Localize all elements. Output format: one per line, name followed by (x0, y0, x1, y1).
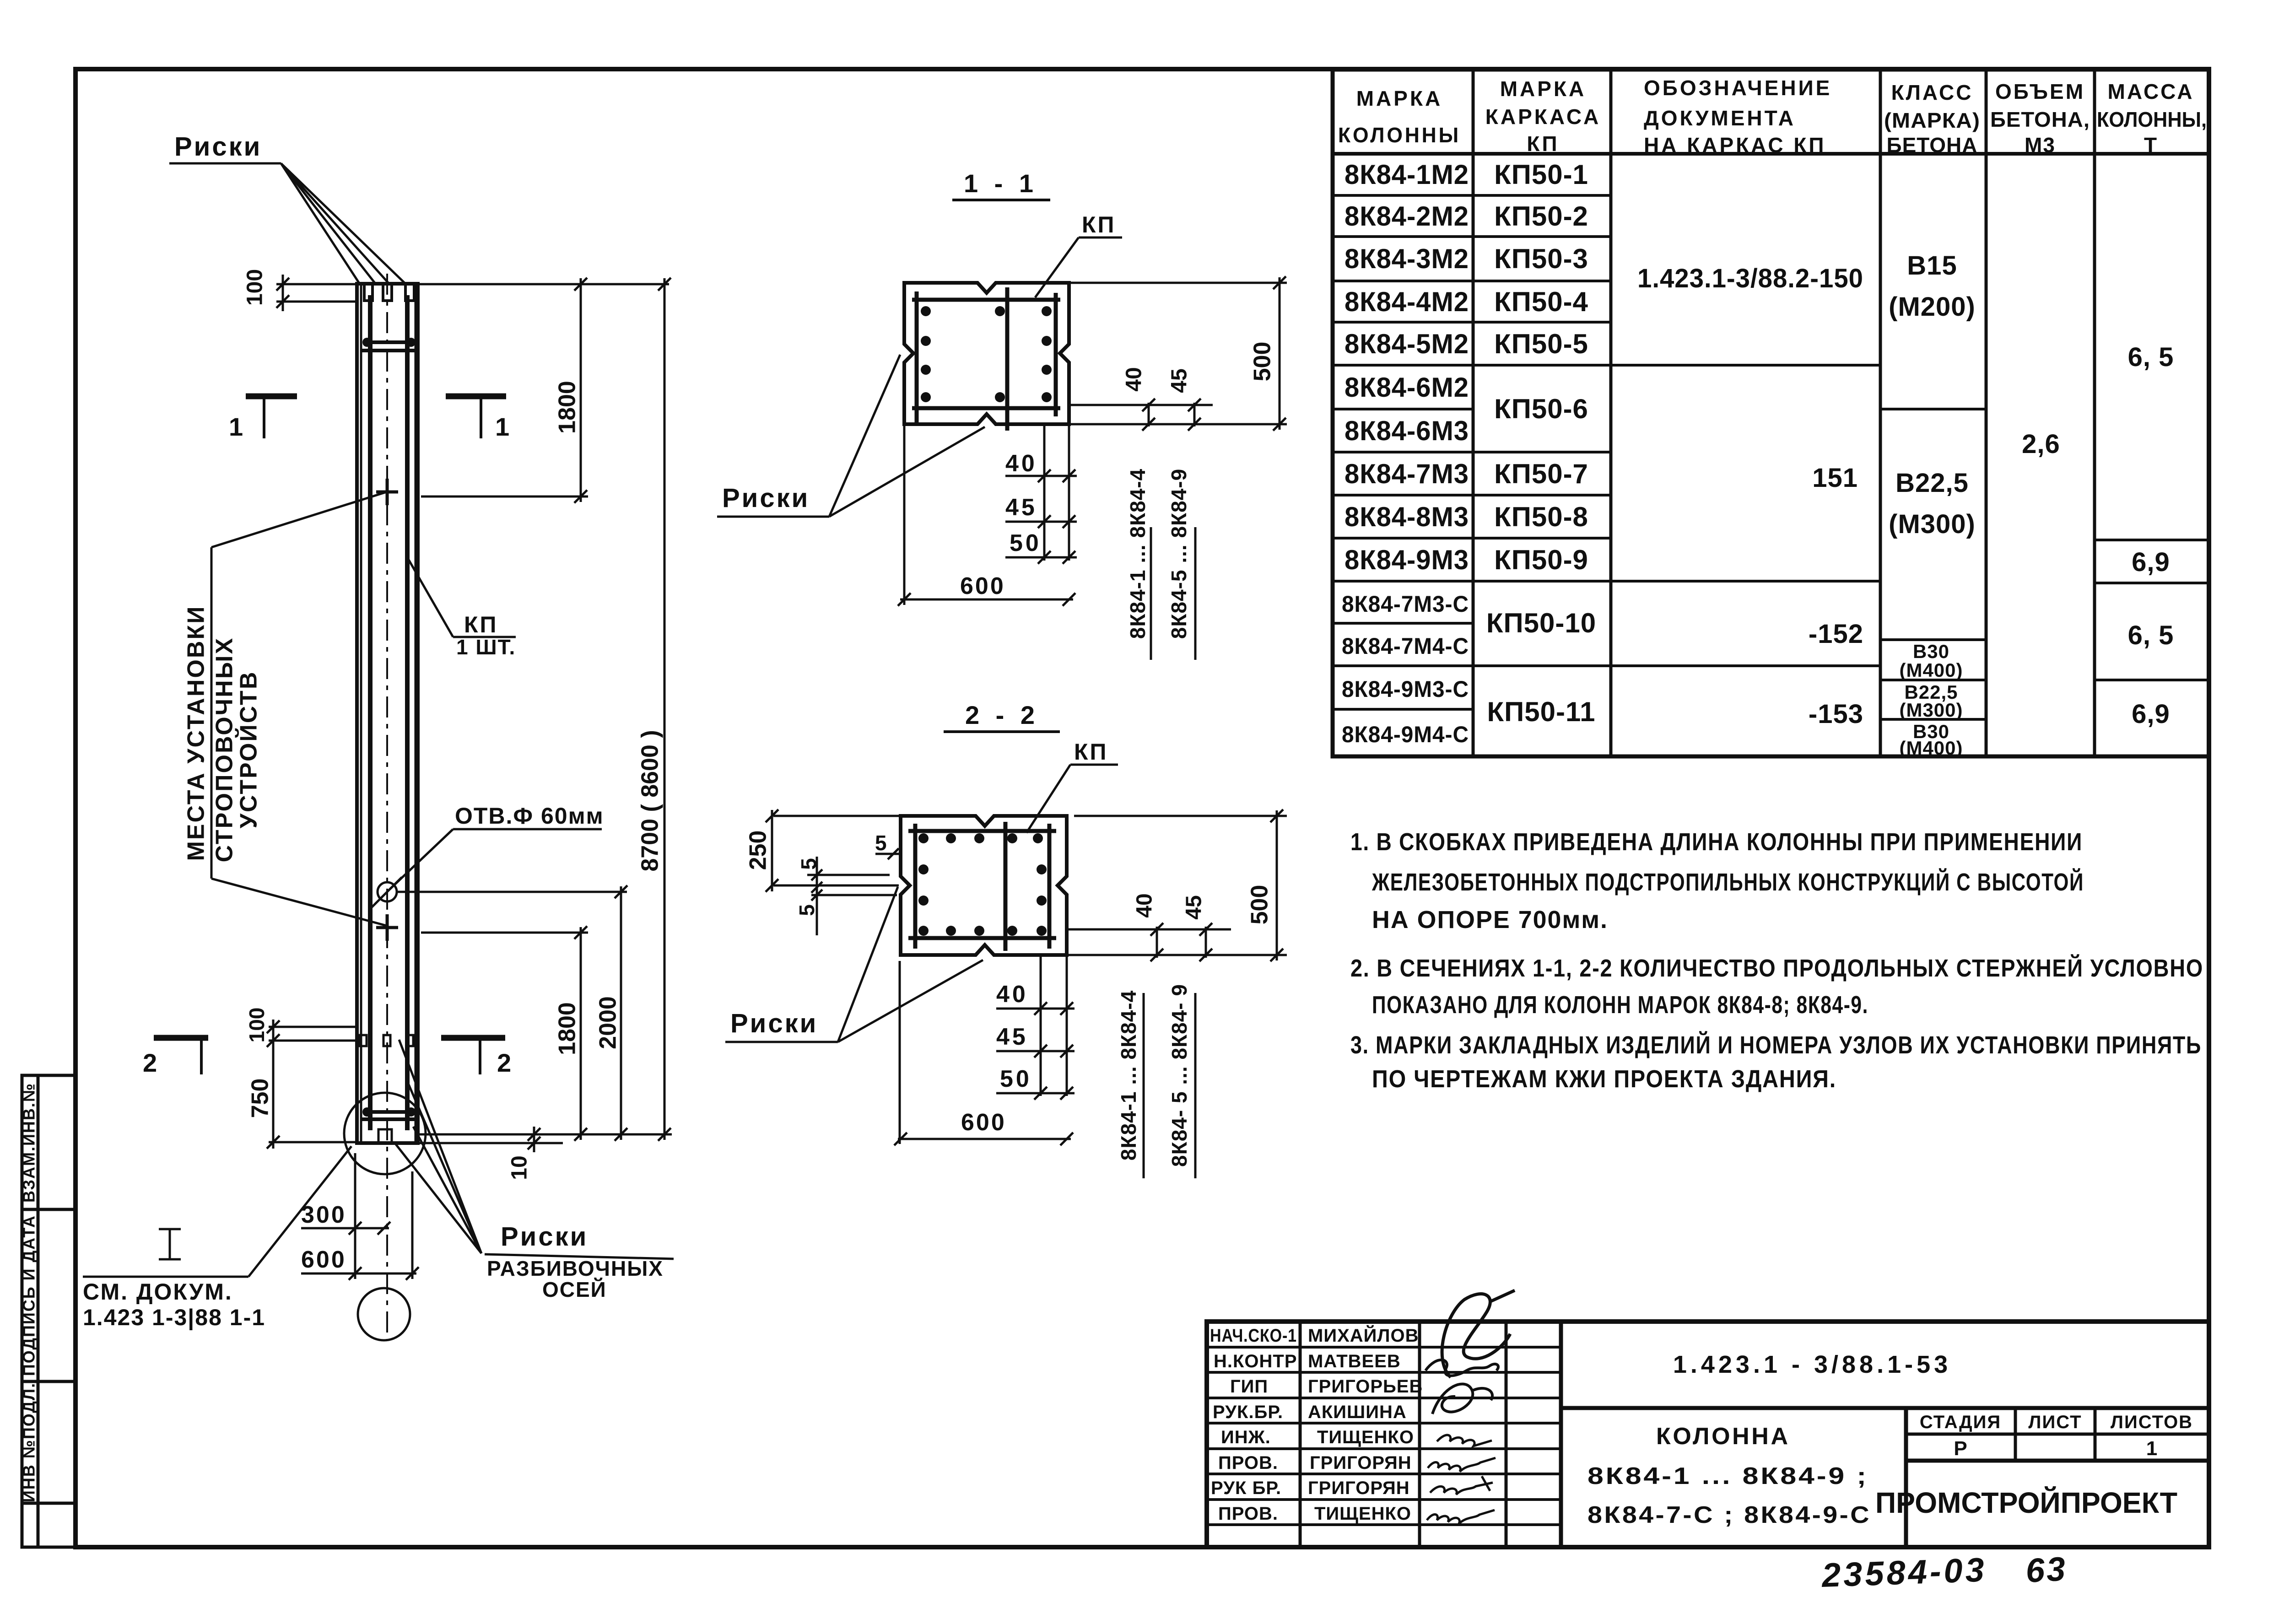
svg-text:40: 40 (996, 981, 1028, 1008)
svg-text:1.423.1 - 3/88.1-53: 1.423.1 - 3/88.1-53 (1673, 1351, 1951, 1378)
svg-text:ОСЕЙ: ОСЕЙ (542, 1278, 607, 1301)
svg-text:МАТВЕЕВ: МАТВЕЕВ (1308, 1351, 1401, 1371)
svg-text:8К84-6М2: 8К84-6М2 (1344, 372, 1469, 403)
svg-text:НА КАРКАС КП: НА КАРКАС КП (1644, 133, 1826, 157)
svg-text:КЛАСС: КЛАСС (1891, 81, 1973, 104)
svg-text:300: 300 (301, 1202, 346, 1228)
svg-text:КАРКАСА: КАРКАСА (1485, 105, 1601, 129)
svg-text:8К84-1М2: 8К84-1М2 (1344, 159, 1469, 190)
svg-text:-153: -153 (1809, 699, 1863, 729)
svg-text:СМ. ДОКУМ.: СМ. ДОКУМ. (83, 1279, 233, 1305)
svg-text:РУК БР.: РУК БР. (1211, 1478, 1281, 1498)
svg-text:1: 1 (229, 412, 243, 441)
svg-text:600: 600 (301, 1246, 346, 1273)
svg-text:МЕСТА УСТАНОВКИ: МЕСТА УСТАНОВКИ (183, 605, 210, 861)
svg-text:ПРОВ.: ПРОВ. (1218, 1504, 1278, 1524)
svg-text:Т: Т (2144, 133, 2158, 157)
svg-text:8К84-1 ... 8К84-4: 8К84-1 ... 8К84-4 (1117, 990, 1140, 1160)
svg-text:КП50-5: КП50-5 (1494, 329, 1588, 359)
svg-text:УСТРОЙСТВ: УСТРОЙСТВ (235, 671, 262, 829)
svg-text:БЕТОНА: БЕТОНА (1887, 133, 1978, 157)
svg-text:2 - 2: 2 - 2 (965, 701, 1039, 729)
svg-text:(М400): (М400) (1899, 737, 1963, 759)
svg-text:8К84-7-С ; 8К84-9-С: 8К84-7-С ; 8К84-9-С (1587, 1502, 1871, 1528)
svg-text:КОЛОННЫ,: КОЛОННЫ, (2097, 108, 2207, 131)
svg-text:КП: КП (1082, 212, 1116, 237)
svg-text:1. В СКОБКАХ ПРИВЕДЕНА ДЛИНА: 1. В СКОБКАХ ПРИВЕДЕНА ДЛИНА КОЛОННЫ ПРИ… (1350, 828, 2083, 856)
svg-text:8К84-1 ... 8К84-4: 8К84-1 ... 8К84-4 (1126, 469, 1150, 639)
svg-text:600: 600 (960, 573, 1005, 599)
svg-text:КП: КП (464, 612, 498, 637)
svg-text:МАССА: МАССА (2108, 80, 2194, 103)
svg-text:250: 250 (745, 831, 772, 870)
svg-text:КП50-8: КП50-8 (1494, 502, 1588, 532)
svg-text:6, 5: 6, 5 (2128, 620, 2174, 650)
svg-text:6,9: 6,9 (2132, 547, 2170, 577)
svg-text:1.423.1-3/88.2-150: 1.423.1-3/88.2-150 (1637, 264, 1863, 293)
svg-text:БЕТОНА,: БЕТОНА, (1990, 108, 2090, 131)
svg-text:8К84-2М2: 8К84-2М2 (1344, 201, 1469, 232)
svg-text:100: 100 (243, 269, 267, 306)
svg-text:ГРИГОРЯН: ГРИГОРЯН (1310, 1453, 1412, 1473)
svg-text:8К84-9М3-С: 8К84-9М3-С (1342, 676, 1469, 702)
svg-text:Риски: Риски (730, 1009, 818, 1038)
svg-text:ДОКУМЕНТА: ДОКУМЕНТА (1644, 106, 1796, 130)
svg-text:ГРИГОРЬЕВ: ГРИГОРЬЕВ (1308, 1376, 1423, 1397)
svg-text:РУК.БР.: РУК.БР. (1213, 1402, 1283, 1422)
svg-text:Н.КОНТР: Н.КОНТР (1214, 1351, 1297, 1371)
svg-text:750: 750 (247, 1079, 274, 1118)
svg-text:2: 2 (497, 1048, 511, 1077)
svg-text:2: 2 (143, 1048, 157, 1077)
svg-text:45: 45 (1005, 494, 1037, 521)
svg-text:5: 5 (797, 858, 821, 870)
svg-text:ГИП: ГИП (1230, 1376, 1268, 1397)
svg-text:8К84-7М3-С: 8К84-7М3-С (1342, 591, 1469, 617)
svg-text:Риски: Риски (722, 483, 810, 513)
svg-text:ВЗАМ.ИНВ.№: ВЗАМ.ИНВ.№ (20, 1083, 38, 1203)
svg-text:45: 45 (996, 1024, 1028, 1050)
svg-text:8К84-6М3: 8К84-6М3 (1344, 415, 1469, 446)
svg-text:3. МАРКИ ЗАКЛАДНЫХ ИЗДЕЛИЙ: 3. МАРКИ ЗАКЛАДНЫХ ИЗДЕЛИЙ И НОМЕРА УЗЛО… (1350, 1031, 2202, 1059)
svg-text:8К84-1 ... 8К84-9 ;: 8К84-1 ... 8К84-9 ; (1587, 1463, 1868, 1489)
svg-text:2,6: 2,6 (2022, 429, 2060, 459)
svg-text:ПО ЧЕРТЕЖАМ КЖИ ПРОЕКТА ЗДА: ПО ЧЕРТЕЖАМ КЖИ ПРОЕКТА ЗДАНИЯ. (1372, 1065, 1836, 1093)
svg-text:ПРОВ.: ПРОВ. (1218, 1453, 1278, 1473)
svg-text:(М200): (М200) (1889, 292, 1976, 322)
svg-text:8К84-7М4-С: 8К84-7М4-С (1342, 633, 1469, 659)
svg-text:500: 500 (1249, 342, 1276, 382)
svg-text:ОБОЗНАЧЕНИЕ: ОБОЗНАЧЕНИЕ (1644, 76, 1832, 100)
svg-text:ИНВ №ПОДЛ.: ИНВ №ПОДЛ. (20, 1382, 38, 1502)
svg-text:КП50-3: КП50-3 (1494, 243, 1588, 274)
svg-text:1.423 1-3|88 1-1: 1.423 1-3|88 1-1 (83, 1305, 265, 1331)
svg-text:500: 500 (1247, 885, 1273, 925)
svg-text:1800: 1800 (554, 1002, 581, 1055)
svg-text:МИХАЙЛОВ: МИХАЙЛОВ (1308, 1325, 1419, 1346)
svg-text:ЛИСТ: ЛИСТ (2028, 1412, 2082, 1432)
svg-text:8К84- 5 ... 8К84- 9: 8К84- 5 ... 8К84- 9 (1167, 984, 1191, 1167)
svg-text:ТИЩЕНКО: ТИЩЕНКО (1314, 1504, 1411, 1524)
svg-text:ЛИСТОВ: ЛИСТОВ (2111, 1412, 2193, 1432)
svg-text:40: 40 (1122, 367, 1146, 391)
svg-text:8К84-5 ... 8К84-9: 8К84-5 ... 8К84-9 (1167, 469, 1191, 639)
svg-text:ГРИГОРЯН: ГРИГОРЯН (1308, 1478, 1410, 1498)
svg-text:50: 50 (1000, 1066, 1032, 1092)
svg-text:(М400): (М400) (1899, 659, 1963, 681)
svg-text:6,9: 6,9 (2132, 699, 2170, 729)
svg-text:МАРКА: МАРКА (1356, 86, 1443, 110)
svg-text:КП: КП (1527, 132, 1559, 156)
svg-text:(М300): (М300) (1899, 699, 1963, 721)
svg-text:ИНЖ.: ИНЖ. (1221, 1427, 1271, 1447)
svg-text:КП50-6: КП50-6 (1494, 394, 1588, 424)
svg-text:1 ШТ.: 1 ШТ. (456, 635, 516, 659)
svg-text:1 - 1: 1 - 1 (964, 169, 1038, 198)
svg-text:КП: КП (1074, 739, 1108, 765)
svg-text:10: 10 (508, 1155, 532, 1180)
svg-text:ЖЕЛЕЗОБЕТОННЫХ ПОДСТРОПИЛЬНЫХ: ЖЕЛЕЗОБЕТОННЫХ ПОДСТРОПИЛЬНЫХ КОНСТРУКЦИ… (1371, 868, 2084, 896)
svg-text:8К84-7М3: 8К84-7М3 (1344, 459, 1469, 489)
svg-text:(М300): (М300) (1889, 509, 1976, 539)
svg-text:КП50-1: КП50-1 (1494, 159, 1588, 190)
svg-text:НАЧ.СКО-1: НАЧ.СКО-1 (1210, 1326, 1297, 1346)
svg-text:КОЛОННЫ: КОЛОННЫ (1338, 123, 1461, 147)
svg-text:В22,5: В22,5 (1895, 468, 1969, 498)
svg-text:63: 63 (2025, 1549, 2068, 1590)
svg-text:ОТВ.Ф 60мм: ОТВ.Ф 60мм (455, 803, 604, 829)
svg-text:100: 100 (245, 1008, 269, 1043)
svg-text:(МАРКА): (МАРКА) (1884, 108, 1980, 132)
svg-text:6, 5: 6, 5 (2128, 342, 2174, 372)
svg-text:МАРКА: МАРКА (1500, 77, 1587, 101)
svg-text:РАЗБИВОЧНЫХ: РАЗБИВОЧНЫХ (487, 1257, 664, 1280)
svg-text:1: 1 (2146, 1437, 2157, 1460)
svg-text:5: 5 (875, 831, 887, 855)
svg-text:ПОДПИСЬ И ДАТА: ПОДПИСЬ И ДАТА (20, 1215, 38, 1376)
svg-text:1: 1 (495, 412, 509, 441)
svg-text:2. В СЕЧЕНИЯХ 1-1, 2-2 КОЛИЧЕ: 2. В СЕЧЕНИЯХ 1-1, 2-2 КОЛИЧЕСТВО ПРОДОЛ… (1350, 954, 2203, 982)
svg-text:КП50-9: КП50-9 (1494, 545, 1588, 575)
svg-text:45: 45 (1182, 895, 1206, 919)
svg-text:151: 151 (1812, 463, 1858, 493)
svg-text:КП50-4: КП50-4 (1494, 286, 1588, 317)
svg-text:АКИШИНА: АКИШИНА (1308, 1402, 1407, 1422)
svg-text:5: 5 (795, 904, 819, 916)
svg-text:М3: М3 (2025, 133, 2056, 157)
svg-text:ОБЪЕМ: ОБЪЕМ (1995, 80, 2085, 103)
svg-text:НА ОПОРЕ 700мм.: НА ОПОРЕ 700мм. (1372, 906, 1608, 933)
svg-text:В15: В15 (1907, 251, 1957, 281)
svg-text:45: 45 (1167, 368, 1192, 393)
svg-text:8К84-4М2: 8К84-4М2 (1344, 286, 1469, 317)
svg-text:50: 50 (1010, 530, 1042, 556)
svg-text:8К84-8М3: 8К84-8М3 (1344, 502, 1469, 532)
svg-text:8К84-9М3: 8К84-9М3 (1344, 545, 1469, 575)
svg-text:КП50-2: КП50-2 (1494, 201, 1588, 232)
svg-text:КП50-7: КП50-7 (1494, 459, 1588, 489)
svg-text:Р: Р (1954, 1437, 1967, 1460)
svg-text:СТАДИЯ: СТАДИЯ (1920, 1412, 2001, 1432)
svg-text:СТРОПОВОЧНЫХ: СТРОПОВОЧНЫХ (211, 637, 238, 863)
svg-text:Риски: Риски (501, 1222, 588, 1252)
svg-text:КП50-10: КП50-10 (1486, 608, 1596, 638)
svg-text:КП50-11: КП50-11 (1487, 696, 1596, 727)
svg-text:8700 ( 8600 ): 8700 ( 8600 ) (637, 730, 664, 871)
svg-text:-152: -152 (1809, 619, 1863, 649)
svg-text:2000: 2000 (595, 996, 621, 1049)
svg-text:600: 600 (961, 1109, 1006, 1136)
svg-text:8К84-9М4-С: 8К84-9М4-С (1342, 722, 1469, 747)
svg-text:ПОКАЗАНО ДЛЯ КОЛОНН МАРОК: ПОКАЗАНО ДЛЯ КОЛОНН МАРОК 8К84-8; 8К84-9… (1372, 991, 1868, 1019)
svg-text:ТИЩЕНКО: ТИЩЕНКО (1317, 1427, 1414, 1447)
svg-text:1800: 1800 (554, 381, 581, 434)
svg-text:8К84-3М2: 8К84-3М2 (1344, 243, 1469, 274)
svg-text:Риски: Риски (174, 132, 262, 162)
svg-text:ПРОМСТРОЙПРОЕКТ: ПРОМСТРОЙПРОЕКТ (1875, 1486, 2177, 1519)
svg-text:В30: В30 (1913, 641, 1949, 662)
svg-text:23584-03: 23584-03 (1820, 1550, 1987, 1594)
svg-text:8К84-5М2: 8К84-5М2 (1344, 329, 1469, 359)
svg-text:40: 40 (1133, 893, 1157, 917)
svg-text:40: 40 (1005, 450, 1037, 477)
svg-text:КОЛОННА: КОЛОННА (1656, 1423, 1796, 1450)
